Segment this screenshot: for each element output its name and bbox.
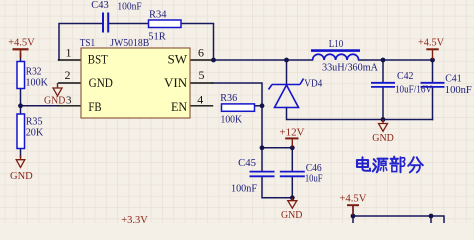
svg-text:GND: GND	[89, 76, 113, 90]
svg-text:C46: C46	[306, 163, 322, 174]
svg-text:C42: C42	[397, 71, 414, 82]
svg-text:100nF: 100nF	[117, 1, 141, 12]
svg-text:GND: GND	[281, 210, 303, 221]
svg-text:+4.5V: +4.5V	[339, 193, 366, 204]
svg-text:VIN: VIN	[164, 76, 187, 90]
svg-text:100K: 100K	[221, 114, 243, 125]
svg-text:6: 6	[198, 46, 204, 60]
svg-text:BST: BST	[88, 53, 108, 67]
svg-text:+4.5V: +4.5V	[8, 37, 35, 48]
svg-text:10uF/16V: 10uF/16V	[395, 84, 432, 95]
svg-text:VD4: VD4	[304, 79, 323, 90]
svg-text:GND: GND	[372, 133, 394, 144]
svg-text:R32: R32	[26, 67, 42, 78]
svg-text:SW: SW	[168, 53, 188, 67]
svg-text:51R: 51R	[148, 31, 166, 42]
svg-text:100nF: 100nF	[445, 85, 472, 96]
svg-text:4: 4	[197, 93, 203, 107]
svg-text:20K: 20K	[26, 128, 44, 139]
svg-text:FB: FB	[88, 100, 101, 114]
svg-text:R34: R34	[149, 10, 167, 21]
svg-text:+4.5V: +4.5V	[418, 38, 444, 49]
svg-text:C43: C43	[91, 0, 109, 11]
svg-text:GND: GND	[44, 96, 66, 107]
svg-text:1: 1	[66, 46, 72, 60]
svg-text:100nF: 100nF	[231, 184, 257, 195]
svg-text:100K: 100K	[26, 77, 49, 88]
svg-text:R36: R36	[220, 93, 237, 104]
svg-text:+3.3V: +3.3V	[121, 215, 148, 223]
svg-text:EN: EN	[171, 100, 187, 114]
svg-text:3: 3	[66, 95, 72, 107]
svg-text:JW5018B: JW5018B	[110, 38, 149, 49]
svg-text:R35: R35	[26, 116, 43, 127]
svg-text:GND: GND	[10, 171, 33, 182]
svg-text:2: 2	[65, 68, 71, 82]
svg-text:C41: C41	[445, 74, 462, 85]
svg-text:33uH/360mA: 33uH/360mA	[322, 63, 378, 74]
svg-text:L10: L10	[329, 39, 344, 50]
svg-text:+12V: +12V	[279, 128, 305, 139]
svg-text:TS1: TS1	[80, 38, 95, 49]
svg-text:C45: C45	[238, 158, 256, 169]
svg-text:10uF: 10uF	[305, 173, 323, 184]
svg-text:5: 5	[199, 68, 205, 82]
